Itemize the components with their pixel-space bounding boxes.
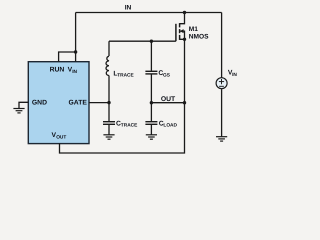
svg-text:OUT: OUT xyxy=(56,135,66,141)
svg-text:IN: IN xyxy=(125,5,132,12)
svg-text:TRACE: TRACE xyxy=(121,123,138,129)
svg-text:IN: IN xyxy=(232,72,237,78)
svg-text:GS: GS xyxy=(163,73,171,79)
svg-text:LOAD: LOAD xyxy=(163,123,177,129)
svg-text:NMOS: NMOS xyxy=(189,33,209,40)
svg-text:TRACE: TRACE xyxy=(117,73,134,79)
svg-text:GND: GND xyxy=(32,99,47,106)
svg-text:M1: M1 xyxy=(189,26,198,33)
svg-text:IN: IN xyxy=(72,69,77,75)
svg-text:GATE: GATE xyxy=(69,99,88,106)
svg-text:OUT: OUT xyxy=(161,96,176,103)
svg-text:RUN: RUN xyxy=(50,67,65,74)
